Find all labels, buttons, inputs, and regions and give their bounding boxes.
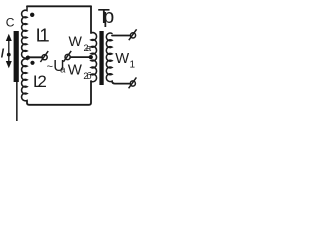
inductor L1 winding (22, 6, 27, 58)
wire bottom horizontal (27, 81, 91, 105)
wire top horizontal (27, 5, 91, 7)
svg-text:W: W (69, 34, 83, 50)
svg-text:2б: 2б (83, 71, 91, 81)
svg-text:2a: 2a (84, 43, 92, 53)
transformer Tp primary winding W2a/W2b (91, 33, 97, 82)
svg-text:1: 1 (130, 60, 136, 71)
terminal secondary bottom (129, 77, 137, 88)
wire right vertical to transformer (90, 6, 92, 33)
svg-text:~: ~ (47, 61, 53, 73)
label W1 (115, 51, 135, 70)
svg-text:l: l (1, 49, 5, 61)
connector terminal left of Ua (40, 51, 48, 62)
adjustment arrow double headed (6, 34, 12, 68)
dot L2 polarity (30, 61, 34, 65)
connector terminal right of Ua (63, 51, 71, 62)
svg-text:L1: L1 (36, 24, 50, 45)
svg-text:C: C (6, 16, 15, 30)
wire transformer secondary top to terminal (112, 35, 130, 37)
svg-text:W: W (115, 51, 129, 67)
transformer core bar (99, 31, 103, 85)
wire connector to transformer tap (70, 56, 90, 58)
dot tap junction (26, 56, 30, 60)
label W2a (69, 34, 92, 53)
wire tap to connector (28, 56, 42, 58)
label ~Ua (47, 58, 67, 76)
svg-text:Тр: Тр (98, 6, 114, 28)
svg-text:W: W (68, 61, 83, 78)
dot transformer tap junction (89, 55, 93, 59)
transformer Tp secondary winding W1 (106, 33, 112, 82)
wire transformer secondary bottom to terminal (112, 82, 129, 84)
svg-text:a: a (60, 65, 66, 76)
svg-text:L2: L2 (33, 72, 47, 91)
inductor L2 winding (22, 58, 27, 101)
label W2b (68, 61, 92, 81)
dot L1 polarity (30, 13, 34, 17)
core C movable rod bar (14, 31, 19, 121)
terminal secondary top (129, 29, 137, 40)
